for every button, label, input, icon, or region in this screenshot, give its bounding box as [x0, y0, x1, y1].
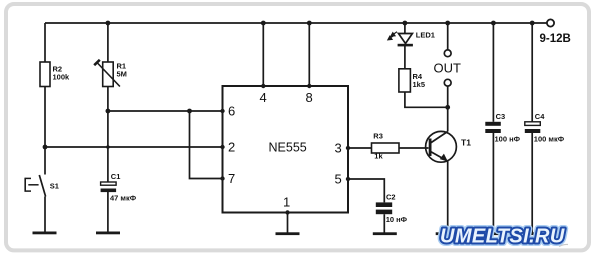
op IC NE555 U1: [223, 86, 349, 213]
wire: R3 to T1 base: [399, 147, 429, 149]
svg-text:C4: C4: [535, 112, 545, 121]
svg-text:10 нФ: 10 нФ: [386, 215, 408, 224]
wire: pin1 stub to ground: [287, 213, 289, 233]
svg-text:C2: C2: [386, 193, 396, 202]
wire: LED branch from rail: [404, 23, 406, 34]
wire: R1 branch vertical top: [107, 23, 109, 62]
potentiometer R1: [94, 60, 127, 87]
svg-text:100 мкФ: 100 мкФ: [534, 135, 565, 144]
node dot pin7 at box: [220, 176, 224, 180]
node dot pin5 at box: [346, 177, 350, 181]
svg-text:5M: 5M: [117, 70, 127, 79]
wire: pin5 to C2: [348, 179, 384, 202]
svg-text:8: 8: [306, 90, 313, 105]
node dot pin1 at box: [285, 210, 289, 214]
node dot pin8 at box: [307, 84, 311, 88]
wire: T1 emitter to ground: [447, 161, 449, 233]
decorative swoosh: [559, 244, 568, 246]
wire: S1 to ground: [44, 197, 46, 232]
wire: OUT bottom terminal down to T1 collector: [447, 86, 449, 131]
wire: R1 bottom to pin6 wire: [107, 87, 109, 112]
node dot rail/C4: [530, 21, 535, 26]
node dot pin6 wire at pin7 drop: [187, 109, 192, 114]
ground (pin1): [276, 232, 300, 235]
svg-text:9-12В: 9-12В: [540, 33, 571, 45]
svg-text:UMELTSI.RU: UMELTSI.RU: [440, 226, 565, 248]
svg-text:C3: C3: [496, 112, 506, 121]
node dot pin2 wire at R2: [43, 145, 48, 150]
capacitor C3: [485, 112, 520, 144]
wire: pin6 horizontal: [108, 110, 223, 112]
capacitor C1: [101, 172, 137, 203]
node dot pin2 at box: [220, 145, 224, 149]
node dot pin4 at box: [261, 84, 265, 88]
ground (C1): [96, 232, 120, 235]
node supply terminal 9-12V: [540, 19, 571, 44]
svg-text:6: 6: [228, 104, 235, 119]
svg-text:1k: 1k: [374, 152, 383, 161]
svg-text:3: 3: [335, 141, 342, 156]
wire: C3 to ground: [492, 133, 494, 233]
node dot rail/pin8: [307, 21, 312, 26]
ground (S1): [33, 232, 57, 235]
wire: R4 down and right to collector node: [405, 92, 448, 107]
wire: C1 drop from pin2 wire: [107, 111, 109, 182]
node dot pin2 wire at C1: [106, 145, 110, 149]
wire: C4 branch from rail: [531, 23, 533, 122]
wire: C1 to ground: [107, 192, 109, 232]
svg-text:47 мкФ: 47 мкФ: [110, 194, 137, 203]
wire: LED cathode to R4: [404, 46, 406, 69]
svg-text:LED1: LED1: [416, 31, 435, 40]
svg-text:5: 5: [335, 172, 342, 187]
node dot rail/LED: [403, 21, 408, 26]
svg-text:100 нФ: 100 нФ: [495, 135, 521, 144]
ground (C2): [373, 232, 397, 235]
node dot rail/pin4: [261, 21, 266, 26]
wire: C3 branch from rail: [492, 23, 494, 122]
watermark UMELTSI.RU: [440, 226, 565, 248]
capacitor C4: [525, 112, 565, 144]
wire: R2 bottom to pin2 node: [44, 87, 46, 148]
node dot R4/collector junction: [445, 105, 450, 110]
node OUT terminals: [434, 50, 462, 86]
svg-text:OUT: OUT: [434, 61, 462, 76]
resistor R3: [372, 131, 400, 160]
node dot rail/OUT: [445, 21, 450, 26]
svg-text:1k5: 1k5: [413, 80, 426, 89]
svg-text:R3: R3: [373, 131, 383, 140]
transistor T1: [426, 131, 472, 162]
ground (C4): [520, 232, 544, 235]
wire: C4 to ground: [531, 133, 533, 233]
svg-text:C1: C1: [111, 172, 121, 181]
svg-text:4: 4: [260, 90, 267, 105]
node dot pin3 at box: [346, 146, 350, 150]
svg-text:T1: T1: [461, 138, 471, 148]
svg-text:NE555: NE555: [269, 141, 307, 155]
capacitor C2: [376, 193, 408, 225]
LED LED1: [388, 31, 435, 47]
wire: top supply rail: [45, 22, 550, 24]
switch S1: [25, 175, 59, 197]
ground (T1 emitter): [436, 232, 460, 235]
resistor R4: [399, 69, 425, 92]
wire: pin3 to R3: [348, 147, 372, 149]
wire: pin2 horizontal: [45, 146, 223, 148]
wire: C2 to ground: [383, 214, 385, 232]
wire: pin7 vertical from pin6 wire: [190, 111, 223, 179]
node dot pin6 wire at R1: [106, 109, 111, 114]
node dot rail/R1: [106, 21, 111, 26]
ground (C3): [481, 232, 505, 235]
resistor R2: [40, 62, 70, 87]
svg-text:S1: S1: [50, 182, 59, 191]
node dot pin6 at box: [220, 109, 224, 113]
wire: pin4 stub: [262, 23, 264, 86]
wire: rail to OUT top terminal: [447, 23, 449, 50]
node dot rail/C3: [491, 21, 496, 26]
wire: pin8 stub: [308, 23, 310, 86]
svg-text:1: 1: [283, 195, 290, 210]
svg-text:2: 2: [228, 140, 235, 155]
wire: node to S1: [44, 147, 46, 175]
svg-text:7: 7: [228, 171, 235, 186]
wire: R2 branch vertical top: [44, 23, 46, 62]
svg-text:100k: 100k: [53, 73, 71, 82]
